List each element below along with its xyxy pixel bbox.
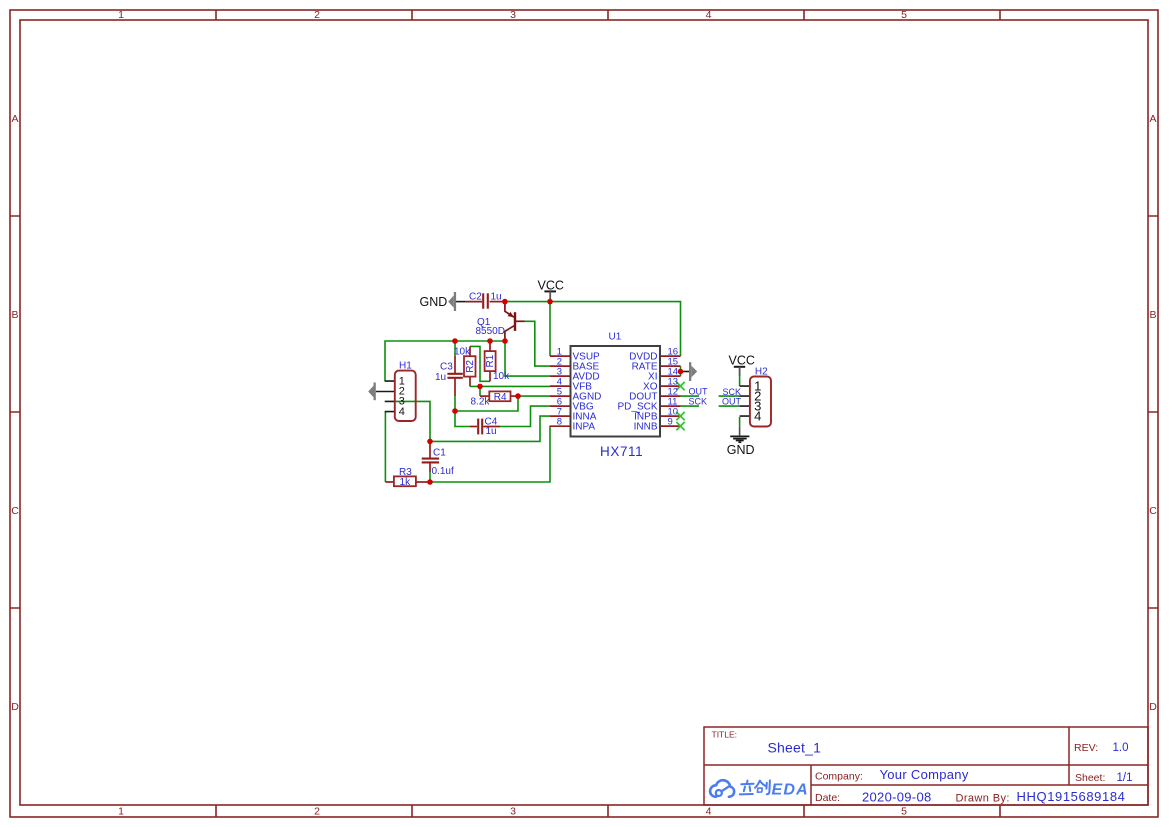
- svg-text:GND: GND: [727, 443, 755, 457]
- svg-text:1/1: 1/1: [1117, 772, 1133, 784]
- svg-text:INPA: INPA: [573, 421, 596, 432]
- svg-text:C: C: [1149, 505, 1157, 517]
- svg-text:0.1uf: 0.1uf: [432, 466, 454, 477]
- svg-text:B: B: [1149, 309, 1156, 321]
- svg-text:8: 8: [557, 417, 562, 428]
- svg-text:4: 4: [399, 406, 405, 418]
- svg-text:1k: 1k: [400, 477, 412, 488]
- svg-text:8.2k: 8.2k: [471, 396, 491, 407]
- svg-text:TITLE:: TITLE:: [712, 729, 738, 739]
- svg-text:OUT: OUT: [722, 397, 742, 407]
- svg-text:4: 4: [706, 9, 712, 21]
- svg-text:VCC: VCC: [538, 278, 564, 292]
- svg-text:3: 3: [510, 9, 516, 21]
- svg-text:GND: GND: [420, 295, 448, 309]
- svg-text:SCK: SCK: [689, 397, 708, 407]
- svg-text:C2: C2: [469, 292, 482, 303]
- svg-text:REV:: REV:: [1074, 742, 1098, 754]
- svg-text:R1: R1: [485, 354, 496, 367]
- svg-text:VCC: VCC: [729, 354, 755, 368]
- svg-text:5: 5: [901, 805, 907, 817]
- svg-text:2020-09-08: 2020-09-08: [862, 790, 932, 805]
- svg-text:2: 2: [314, 9, 320, 21]
- svg-text:4: 4: [754, 408, 761, 423]
- svg-text:H1: H1: [399, 361, 412, 372]
- svg-text:INNB: INNB: [634, 421, 658, 432]
- svg-text:Company:: Company:: [815, 770, 863, 782]
- svg-text:U1: U1: [609, 331, 622, 342]
- svg-text:2: 2: [314, 805, 320, 817]
- svg-text:B: B: [11, 309, 18, 321]
- svg-text:1.0: 1.0: [1113, 742, 1129, 754]
- svg-text:10k: 10k: [454, 347, 471, 358]
- svg-text:Sheet:: Sheet:: [1075, 772, 1105, 784]
- svg-text:1u: 1u: [486, 426, 497, 437]
- svg-text:1: 1: [118, 805, 124, 817]
- svg-text:OUT: OUT: [689, 386, 709, 396]
- svg-text:C3: C3: [440, 361, 453, 372]
- svg-text:HHQ1915689184: HHQ1915689184: [1017, 789, 1126, 804]
- svg-text:10k: 10k: [493, 371, 510, 382]
- svg-text:Drawn By:: Drawn By:: [956, 793, 1010, 805]
- svg-text:A: A: [11, 113, 18, 125]
- svg-text:1: 1: [118, 9, 124, 21]
- svg-text:1u: 1u: [491, 292, 502, 303]
- svg-text:SCK: SCK: [723, 387, 742, 397]
- svg-text:EDA: EDA: [772, 782, 809, 799]
- svg-text:Your Company: Your Company: [880, 767, 969, 782]
- svg-text:C: C: [11, 505, 19, 517]
- svg-text:A: A: [1149, 113, 1156, 125]
- svg-text:4: 4: [706, 805, 712, 817]
- svg-text:R2: R2: [465, 360, 476, 373]
- svg-text:Date:: Date:: [815, 792, 840, 804]
- svg-text:HX711: HX711: [600, 444, 643, 459]
- svg-text:3: 3: [510, 805, 516, 817]
- svg-text:H2: H2: [755, 367, 768, 378]
- svg-text:R4: R4: [494, 392, 507, 403]
- svg-text:Sheet_1: Sheet_1: [768, 739, 822, 755]
- svg-text:5: 5: [901, 9, 907, 21]
- svg-text:C1: C1: [433, 448, 446, 459]
- svg-text:8550D: 8550D: [476, 326, 505, 337]
- svg-text:9: 9: [668, 417, 673, 428]
- svg-text:1u: 1u: [435, 372, 446, 383]
- svg-text:D: D: [1149, 701, 1157, 713]
- svg-text:D: D: [11, 701, 19, 713]
